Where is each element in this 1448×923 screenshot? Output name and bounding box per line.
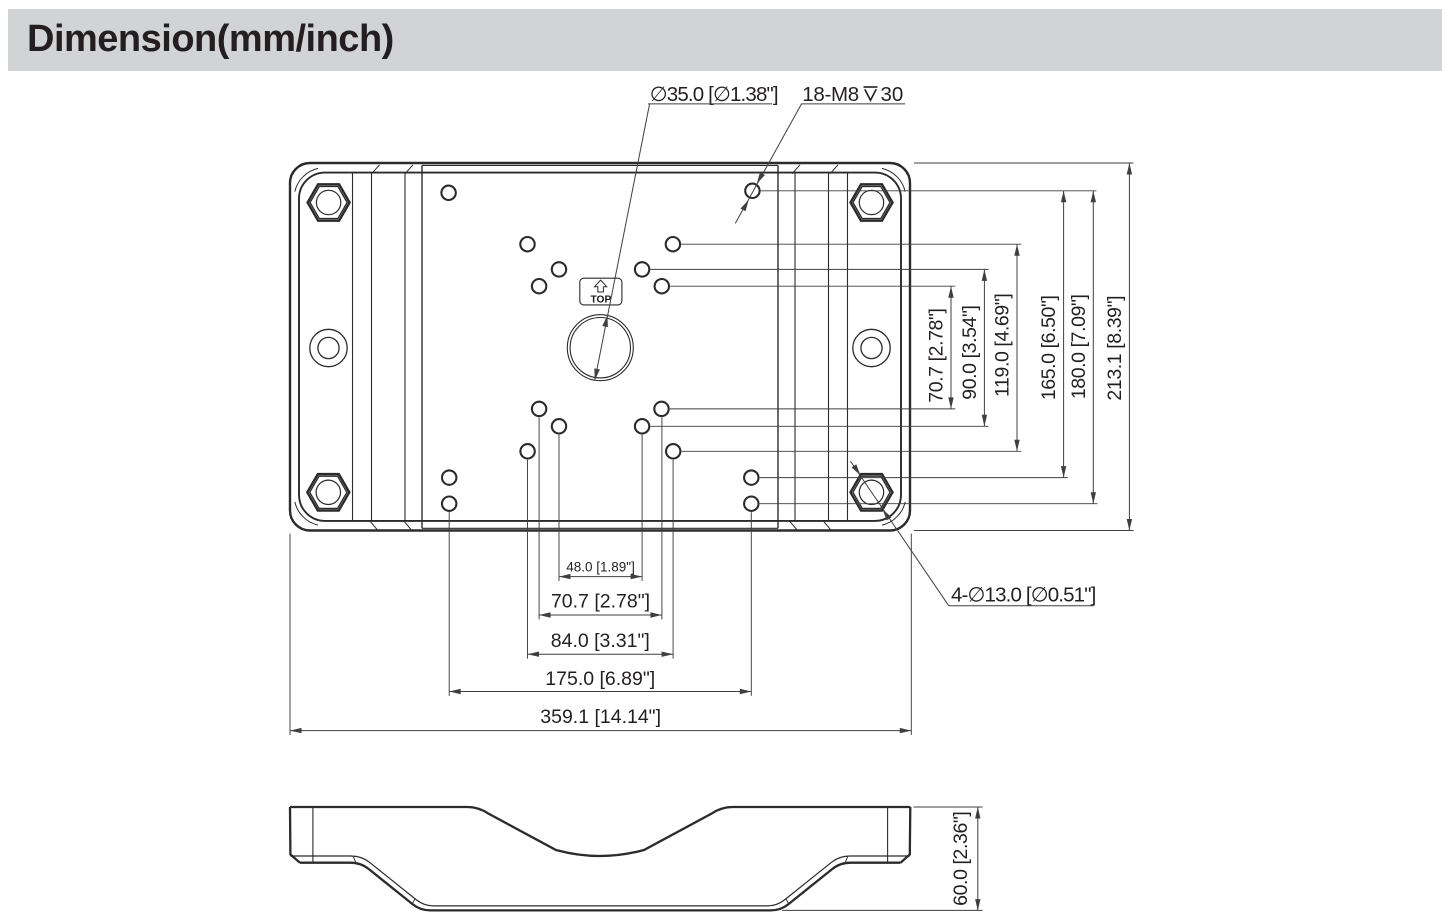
svg-text:175.0 [6.89"]: 175.0 [6.89"] [545,668,655,690]
13mm pair hole bottom-right upper [744,470,758,484]
bend tangent verticals right [794,173,796,521]
callout 18-M8 leader arrows [735,104,801,223]
svg-text:∅35.0 [∅1.38"]: ∅35.0 [∅1.38"] [650,83,778,106]
13mm pair hole bottom-right lower [744,497,758,511]
13mm pair hole bottom-left lower [442,497,456,511]
M8 hole upper-right b [635,262,649,276]
M8 hole upper-left b [552,262,566,276]
dimension 48.0 horizontal [559,560,642,580]
svg-text:70.7 [2.78"]: 70.7 [2.78"] [926,308,948,402]
callout 35.0 leader with diameter arrows [594,104,649,380]
svg-text:165.0 [6.50"]: 165.0 [6.50"] [1038,295,1060,400]
right side hole (double circle) [853,329,890,366]
dimension 60.0 side view [950,807,981,911]
svg-text:180.0 [7.09"]: 180.0 [7.09"] [1068,294,1090,399]
callout 35.0 underline [648,103,772,105]
dimension 90.0 vertical [959,269,987,426]
callout 18-M8 underline [801,103,905,105]
dimension 119.0 vertical [992,244,1020,451]
dimension 84.0 horizontal [528,630,674,657]
dimension 180.0 vertical [1068,191,1096,504]
svg-text:90.0 [3.54"]: 90.0 [3.54"] [959,305,981,399]
dimension 165.0 vertical [1038,191,1066,478]
svg-text:119.0 [4.69"]: 119.0 [4.69"] [992,294,1014,397]
left side hole (double circle) [310,329,347,366]
plate outer outline (top view) [290,163,910,531]
dimension 175.0 horizontal [449,668,751,694]
M8 hole upper-right a [666,237,680,251]
M8 hole lower-left a [532,402,546,416]
extension lines vertical (bottom) [290,417,911,735]
M8 hole upper-left c [532,279,546,293]
side view bend tangent ticks [353,856,848,905]
side view inner bottom line (material upper face) [290,856,909,906]
svg-text:70.7 [2.78"]: 70.7 [2.78"] [551,591,650,613]
hex bolt top-right [851,184,893,220]
TOP marking box [580,278,622,305]
svg-text:60.0 [2.36"]: 60.0 [2.36"] [950,812,972,906]
side view right end edge with chamfer [901,807,911,863]
svg-text:359.1 [14.14"]: 359.1 [14.14"] [540,706,661,728]
title bar [8,9,1442,71]
M8 hole lower-right a [654,402,668,416]
dimension 359.1 horizontal [290,706,911,733]
svg-text:TOP: TOP [591,295,612,306]
depth symbol [864,87,878,100]
M8 hole upper-left a [520,237,534,251]
svg-text:84.0 [3.31"]: 84.0 [3.31"] [551,630,650,652]
saddle tangent line top [422,164,778,166]
dimension 70.7 horizontal [539,591,662,618]
svg-text:4-∅13.0 [∅0.51"]: 4-∅13.0 [∅0.51"] [951,583,1096,606]
extension lines horizontal (right side) [650,163,1133,531]
hex bolt top-left [308,184,350,220]
side view left block inner line [312,808,314,862]
M8 hole lower-left b [552,419,566,433]
bend transition diagonals bottom [370,521,377,530]
M8 hole lower-right b [635,419,649,433]
side view top profile with saddle dip [290,807,910,856]
plate inner contour [299,173,901,521]
hex bolt bottom-right [851,474,893,510]
dimension 213.1 vertical [1104,163,1132,531]
callout 4-dia 13.0 underline [949,605,1094,607]
side view outer bottom silhouette [300,863,901,911]
M8 hole lower-left c [520,444,534,458]
side view right block inner line [887,808,889,862]
svg-text:30: 30 [881,83,904,106]
dimension 70.7 vertical [926,286,954,409]
M8 hole upper-right c [655,279,669,293]
center hole 35mm (double circle) [567,315,633,381]
bend tangent verticals left [352,173,354,521]
M8 hole top-left single [441,186,455,200]
corner bend arcs [295,168,905,525]
callout 4-dia 13.0 leader with diameter arrows [850,461,948,606]
bend transition diagonals top [372,165,380,174]
saddle tangent line bottom [422,527,778,529]
side view left end edge with chamfer [290,807,300,863]
svg-text:48.0 [1.89"]: 48.0 [1.89"] [566,560,635,575]
svg-text:18-M8: 18-M8 [802,83,859,106]
13mm pair hole bottom-left upper [442,470,456,484]
60.0 extension lines [782,807,983,910]
M8 hole lower-right c [666,444,680,458]
hex bolt bottom-left [307,474,349,510]
svg-text:213.1 [8.39"]: 213.1 [8.39"] [1104,296,1126,401]
M8 hole top-right single (callout target) [745,184,759,198]
